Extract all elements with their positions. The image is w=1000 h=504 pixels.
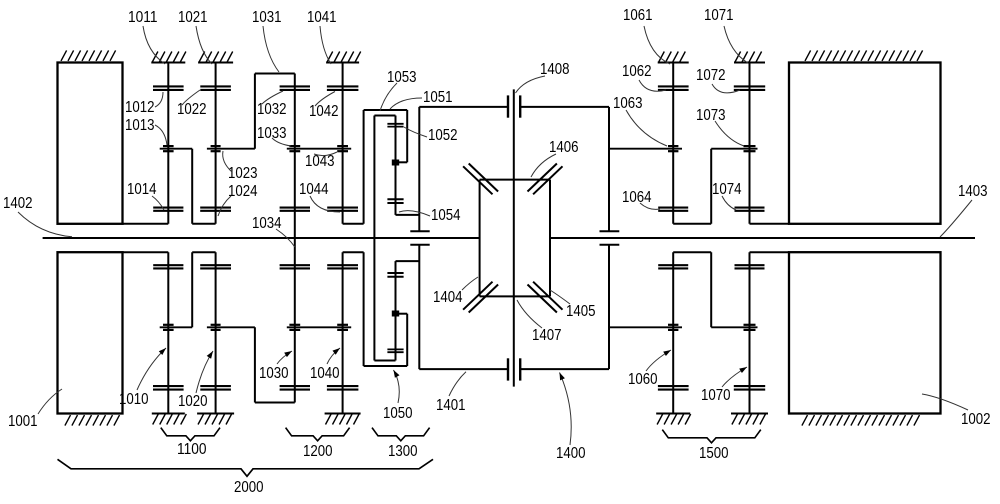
svg-text:1041: 1041: [307, 9, 337, 26]
svg-text:1023: 1023: [228, 165, 258, 182]
svg-text:1073: 1073: [696, 107, 726, 124]
svg-text:1053: 1053: [387, 69, 417, 86]
svg-text:1200: 1200: [303, 443, 333, 460]
svg-text:1074: 1074: [712, 181, 742, 198]
svg-text:1020: 1020: [178, 393, 208, 410]
svg-text:1100: 1100: [177, 441, 207, 458]
svg-text:1011: 1011: [128, 9, 158, 26]
svg-text:1001: 1001: [8, 413, 38, 430]
svg-text:1407: 1407: [532, 327, 562, 344]
svg-text:2000: 2000: [234, 479, 264, 496]
svg-text:1300: 1300: [388, 443, 418, 460]
svg-text:1013: 1013: [125, 117, 155, 134]
svg-text:1002: 1002: [961, 411, 991, 428]
svg-text:1072: 1072: [696, 67, 726, 84]
svg-text:1401: 1401: [436, 397, 466, 414]
svg-text:1012: 1012: [125, 99, 155, 116]
svg-text:1024: 1024: [228, 183, 258, 200]
svg-text:1500: 1500: [699, 445, 729, 462]
svg-text:1054: 1054: [431, 207, 461, 224]
svg-text:1071: 1071: [704, 7, 734, 24]
svg-text:1063: 1063: [613, 95, 643, 112]
svg-text:1031: 1031: [252, 9, 282, 26]
svg-text:1051: 1051: [423, 89, 453, 106]
svg-text:1402: 1402: [3, 195, 33, 212]
svg-text:1061: 1061: [623, 7, 653, 24]
svg-text:1052: 1052: [428, 127, 458, 144]
svg-text:1021: 1021: [178, 9, 208, 26]
svg-text:1403: 1403: [958, 183, 988, 200]
svg-text:1014: 1014: [127, 181, 157, 198]
svg-text:1400: 1400: [556, 445, 586, 462]
svg-text:1040: 1040: [310, 365, 340, 382]
svg-text:1070: 1070: [701, 387, 731, 404]
svg-text:1064: 1064: [622, 189, 652, 206]
svg-text:1030: 1030: [259, 365, 289, 382]
svg-text:1062: 1062: [622, 63, 652, 80]
svg-text:1060: 1060: [628, 371, 658, 388]
svg-text:1406: 1406: [549, 139, 579, 156]
svg-text:1022: 1022: [177, 101, 207, 118]
svg-text:1408: 1408: [540, 61, 570, 78]
svg-text:1042: 1042: [309, 103, 339, 120]
svg-text:1044: 1044: [299, 181, 329, 198]
svg-text:1405: 1405: [566, 303, 596, 320]
svg-text:1033: 1033: [257, 125, 287, 142]
svg-text:1032: 1032: [257, 101, 287, 118]
svg-text:1050: 1050: [383, 405, 413, 422]
svg-text:1010: 1010: [119, 391, 149, 408]
svg-text:1404: 1404: [433, 289, 463, 306]
